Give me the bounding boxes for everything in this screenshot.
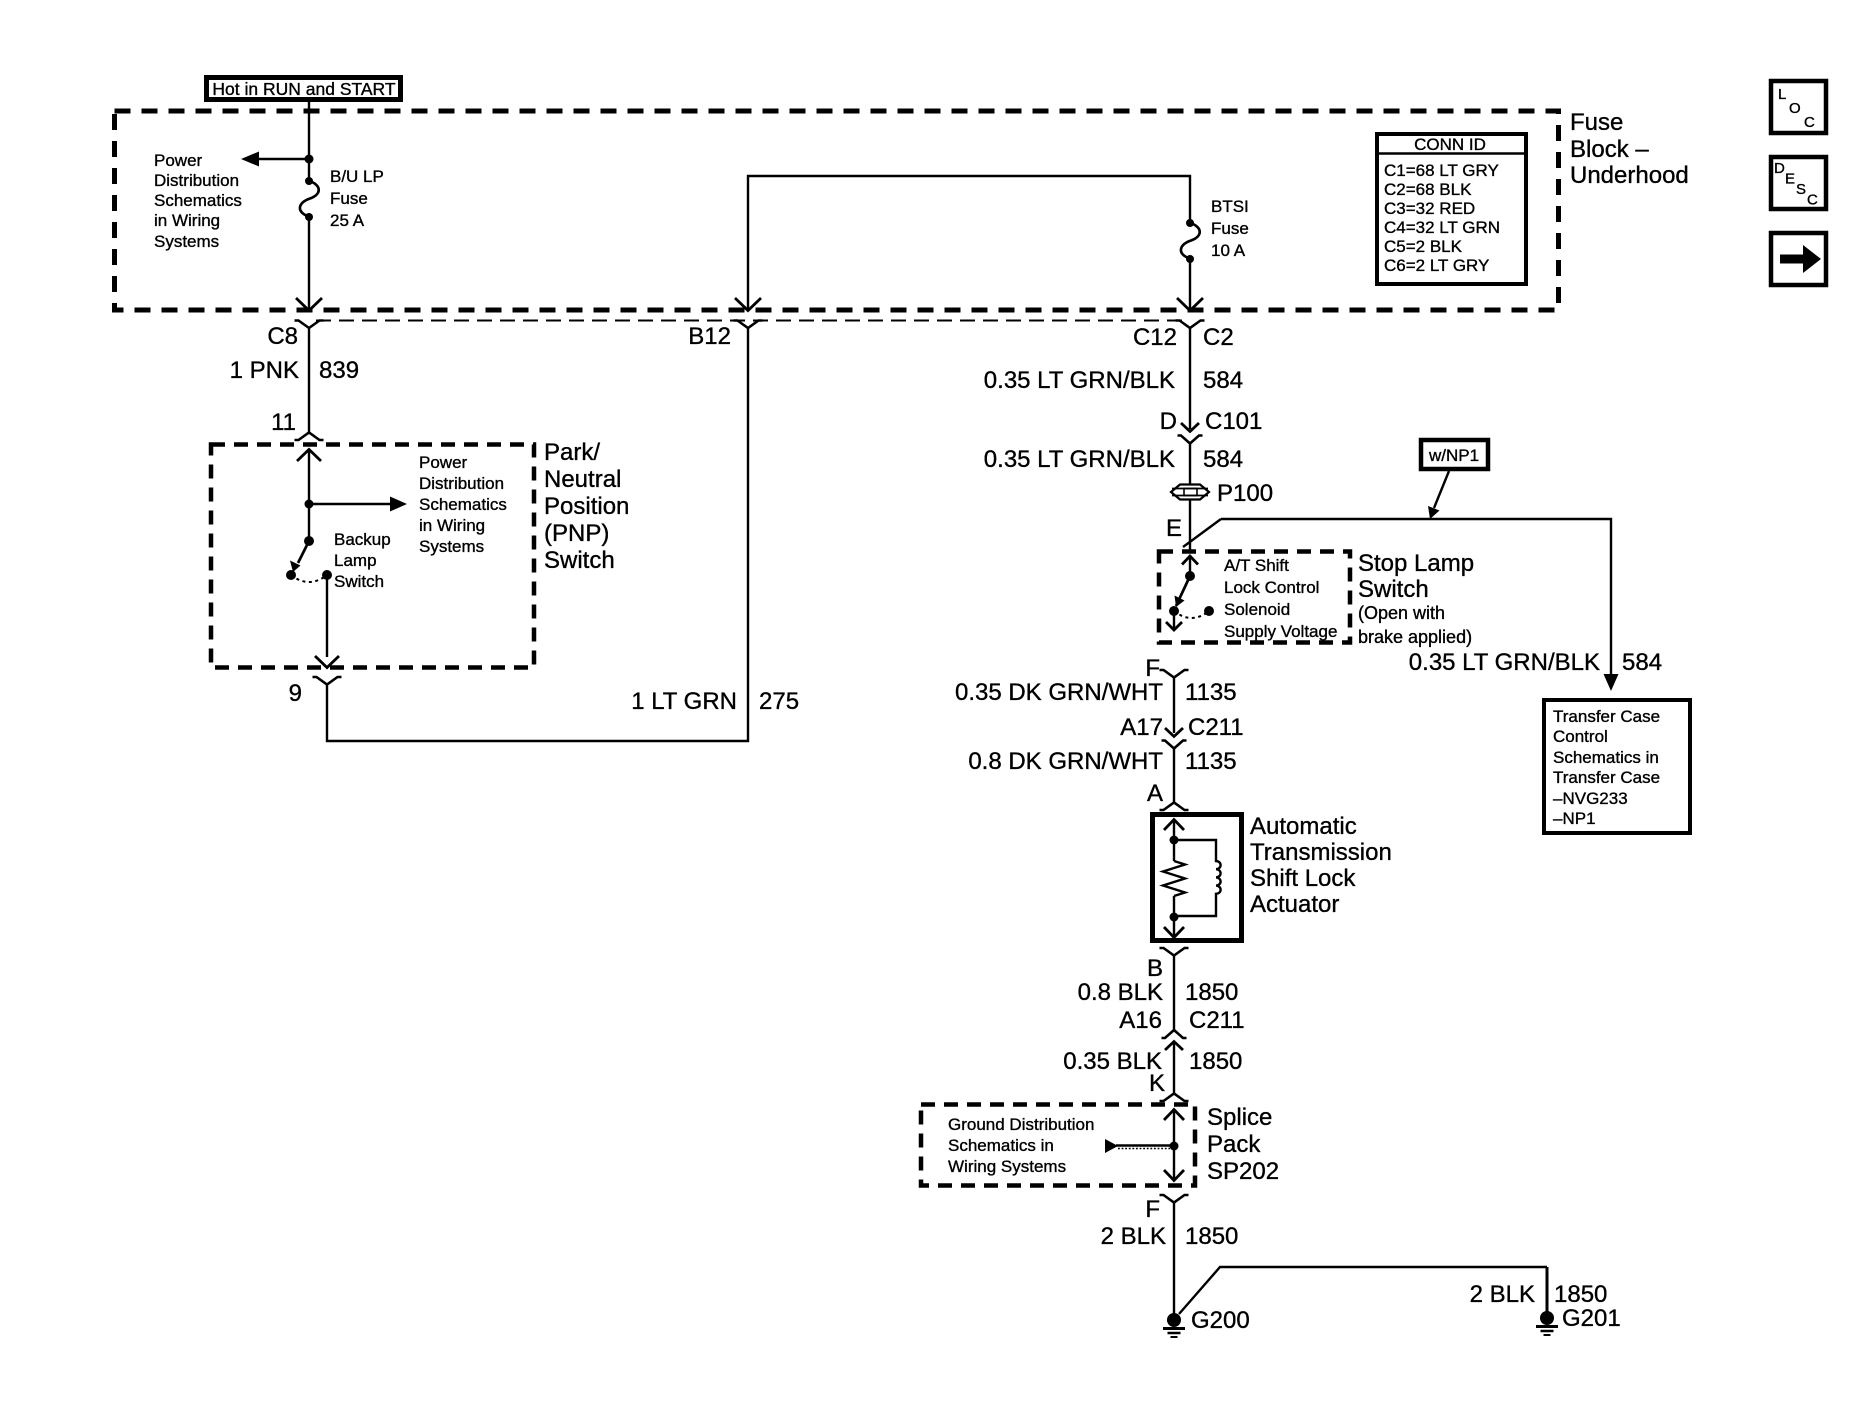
svg-text:Neutral: Neutral	[544, 466, 621, 493]
node: actuator bottom junction	[1170, 913, 1179, 922]
Park/Neutral Position switch dashed box	[211, 445, 534, 668]
wire: circuit 839 C8 to PNP pin 11	[308, 328, 310, 432]
connector C101 pin D (inline)	[1160, 408, 1263, 444]
svg-text:B12: B12	[688, 323, 731, 350]
svg-text:(Open with: (Open with	[1358, 603, 1445, 623]
wire: circuit 1850 to ground G200	[1173, 1203, 1175, 1315]
stop lamp switch dashed box (A/T shift lock solenoid supply)	[1159, 552, 1350, 643]
svg-text:–NVG233: –NVG233	[1553, 789, 1628, 808]
resistor (actuator coil suppression)	[1173, 840, 1175, 861]
svg-text:10 A: 10 A	[1211, 241, 1246, 260]
svg-text:Switch: Switch	[544, 547, 615, 574]
svg-text:C211: C211	[1188, 714, 1244, 741]
icon: next-page arrow button	[1771, 233, 1826, 285]
node: actuator title	[1250, 813, 1392, 918]
node: junction to power distribution (PNP)	[305, 500, 314, 509]
svg-text:Ground Distribution: Ground Distribution	[948, 1115, 1094, 1134]
svg-text:Power: Power	[154, 151, 203, 170]
svg-text:0.35 BLK: 0.35 BLK	[1063, 1048, 1162, 1075]
connector C8 (fuse block to harness)	[295, 321, 324, 329]
svg-text:Stop Lamp: Stop Lamp	[1358, 550, 1474, 577]
connector pin F (stop lamp switch output)	[1160, 670, 1189, 678]
svg-text:1 PNK: 1 PNK	[230, 357, 299, 384]
svg-text:2 BLK: 2 BLK	[1101, 1223, 1166, 1250]
svg-text:(PNP): (PNP)	[544, 520, 609, 547]
svg-text:11: 11	[271, 409, 296, 436]
wire: P100 down to stop lamp switch (node E)	[1189, 500, 1191, 552]
node: Splice Pack SP202 title	[1207, 1104, 1279, 1185]
svg-text:C211: C211	[1189, 1007, 1245, 1034]
wire: actuator pin B exit	[1173, 917, 1175, 937]
svg-text:D: D	[1774, 160, 1785, 177]
wire: branch to power distribution schematics	[258, 158, 309, 160]
svg-text:P100: P100	[1217, 480, 1273, 507]
svg-text:Power: Power	[419, 453, 468, 472]
wire: fuse output down to C8	[308, 217, 310, 309]
svg-text:E: E	[1785, 171, 1795, 188]
node: Transfer Case Control Schematics reference box	[1544, 700, 1690, 833]
wire: node E branch diagonal to NP1 stop lamp feed	[1183, 519, 1221, 547]
svg-text:0.8 DK GRN/WHT: 0.8 DK GRN/WHT	[968, 748, 1163, 775]
svg-text:Distribution: Distribution	[419, 474, 504, 493]
svg-text:9: 9	[289, 680, 302, 707]
svg-text:0.35 LT GRN/BLK: 0.35 LT GRN/BLK	[1409, 649, 1600, 676]
wire: circuit 275 from pin 9 up to B12	[327, 328, 748, 741]
inductor (actuator solenoid winding)	[1174, 840, 1221, 916]
svg-text:Transfer Case: Transfer Case	[1553, 707, 1660, 726]
wire: circuit 584 C12 to C101	[1189, 328, 1191, 429]
svg-text:A/T Shift: A/T Shift	[1224, 556, 1289, 575]
svg-text:Lock Control: Lock Control	[1224, 578, 1319, 597]
ground G201	[1536, 1305, 1621, 1335]
svg-text:Schematics in: Schematics in	[1553, 748, 1659, 767]
connector pin B terminal	[1160, 948, 1189, 956]
ground distribution dashed box (splice pack SP202)	[921, 1105, 1195, 1186]
svg-text:Position: Position	[544, 493, 629, 520]
wire: switch output down to pin 9	[326, 575, 328, 657]
svg-text:Pack: Pack	[1207, 1131, 1261, 1158]
svg-text:C4=32 LT GRN: C4=32 LT GRN	[1384, 218, 1500, 237]
svg-text:Hot in RUN and START: Hot in RUN and START	[212, 79, 395, 99]
svg-text:Switch: Switch	[1358, 576, 1429, 603]
svg-text:Systems: Systems	[419, 537, 484, 556]
svg-text:L: L	[1778, 86, 1786, 103]
svg-text:F: F	[1145, 1196, 1160, 1223]
node: Power Distribution Schematics note (fuse block)	[154, 151, 242, 251]
svg-text:0.35 LT GRN/BLK: 0.35 LT GRN/BLK	[984, 367, 1175, 394]
svg-text:1850: 1850	[1185, 1223, 1238, 1250]
svg-text:in Wiring: in Wiring	[419, 516, 485, 535]
connector C12 / C2	[1176, 321, 1205, 329]
ground G200	[1163, 1307, 1250, 1337]
svg-text:Lamp: Lamp	[334, 551, 377, 570]
svg-text:B/U LP: B/U LP	[330, 167, 384, 186]
svg-text:0.35 DK GRN/WHT: 0.35 DK GRN/WHT	[955, 679, 1163, 706]
svg-text:Control: Control	[1553, 727, 1608, 746]
svg-text:Block –: Block –	[1570, 136, 1649, 163]
wire: B12 up into fuse block and across to BTSI fuse	[748, 176, 1190, 309]
node: Power Distribution Schematics note (PNP)	[419, 453, 507, 556]
svg-text:C8: C8	[267, 323, 298, 350]
svg-text:SP202: SP202	[1207, 1158, 1279, 1185]
svg-text:Park/: Park/	[544, 439, 600, 466]
svg-text:brake applied): brake applied)	[1358, 627, 1472, 647]
svg-text:E: E	[1166, 515, 1182, 542]
svg-text:G200: G200	[1191, 1307, 1250, 1334]
node: A/T Shift Lock Control note	[1224, 556, 1337, 641]
svg-text:C: C	[1807, 192, 1818, 209]
switch: stop lamp contacts	[1166, 556, 1214, 630]
svg-text:S: S	[1796, 181, 1806, 198]
wire: actuator pin A entry	[1164, 820, 1184, 831]
svg-text:Fuse: Fuse	[1211, 219, 1249, 238]
fuse B/U LP 25A	[300, 167, 384, 230]
svg-text:0.35 LT GRN/BLK: 0.35 LT GRN/BLK	[984, 446, 1175, 473]
svg-text:C3=32 RED: C3=32 RED	[1384, 199, 1475, 218]
svg-text:1850: 1850	[1189, 1048, 1242, 1075]
svg-text:Fuse: Fuse	[330, 189, 368, 208]
svg-text:Transfer Case: Transfer Case	[1553, 768, 1660, 787]
svg-text:Splice: Splice	[1207, 1104, 1272, 1131]
connector pin F (splice pack output)	[1160, 1195, 1189, 1203]
wire: ground branch G200 to G201	[1179, 1267, 1547, 1314]
node: Ground Distribution Schematics note	[948, 1115, 1094, 1176]
node: junction to power distribution	[305, 155, 314, 164]
svg-text:C: C	[1804, 114, 1815, 131]
node: PNP switch title	[544, 439, 629, 574]
splice SP202	[1105, 1110, 1184, 1181]
svg-text:A: A	[1147, 780, 1163, 807]
svg-text:Automatic: Automatic	[1250, 813, 1357, 840]
wire: BTSI fuse down to C12	[1189, 259, 1191, 309]
svg-text:Underhood: Underhood	[1570, 162, 1689, 189]
icon: LOC button	[1771, 81, 1826, 133]
svg-text:CONN ID: CONN ID	[1414, 135, 1486, 154]
svg-text:F: F	[1145, 655, 1160, 682]
svg-text:1850: 1850	[1185, 979, 1238, 1006]
wire: circuit 1850 pin B to C211 A16	[1173, 956, 1175, 1031]
svg-text:1850: 1850	[1554, 1281, 1607, 1308]
svg-text:w/NP1: w/NP1	[1428, 446, 1479, 465]
svg-text:1135: 1135	[1185, 679, 1237, 706]
connector C211 pin A16 (inline)	[1119, 1007, 1244, 1050]
svg-text:A17: A17	[1120, 714, 1163, 741]
svg-text:584: 584	[1622, 649, 1662, 676]
svg-text:K: K	[1149, 1070, 1165, 1097]
wire: pin 11 entry into switch	[297, 450, 321, 462]
svg-text:in Wiring: in Wiring	[154, 211, 220, 230]
CONN ID table	[1377, 134, 1526, 284]
svg-text:C12: C12	[1133, 324, 1177, 351]
svg-text:Distribution: Distribution	[154, 171, 239, 190]
wire: circuit 1135 C211 to actuator pin A	[1173, 749, 1175, 803]
grommet P100	[1171, 480, 1273, 507]
svg-text:C5=2 BLK: C5=2 BLK	[1384, 237, 1463, 256]
wire: circuit 584 C101 to P100	[1189, 444, 1191, 486]
svg-text:C6=2 LT GRY: C6=2 LT GRY	[1384, 256, 1489, 275]
svg-text:C2: C2	[1203, 324, 1234, 351]
svg-text:O: O	[1789, 100, 1801, 117]
node: Fuse Block - Underhood title	[1570, 109, 1689, 189]
wire: battery feed from Hot label into fuse block	[308, 101, 310, 178]
svg-text:Backup: Backup	[334, 530, 391, 549]
svg-text:C101: C101	[1205, 408, 1262, 435]
icon: DESC button	[1771, 157, 1826, 209]
svg-text:A16: A16	[1119, 1007, 1162, 1034]
svg-text:Transmission: Transmission	[1250, 839, 1392, 866]
svg-text:Shift Lock: Shift Lock	[1250, 865, 1356, 892]
svg-text:Schematics: Schematics	[154, 191, 242, 210]
svg-text:Systems: Systems	[154, 232, 219, 251]
node: actuator top junction	[1170, 836, 1179, 845]
svg-text:C1=68 LT GRY: C1=68 LT GRY	[1384, 161, 1499, 180]
wire: branch arrow to power distribution schematics	[309, 503, 392, 505]
svg-text:BTSI: BTSI	[1211, 197, 1249, 216]
svg-text:G201: G201	[1562, 1305, 1621, 1332]
connector face dashed line (C8..C2 row)	[316, 320, 1186, 322]
connector pin 11 terminal	[295, 433, 324, 441]
svg-text:Solenoid: Solenoid	[1224, 600, 1290, 619]
switch: backup lamp switch	[286, 530, 391, 591]
wire: circuit 1135 pin F to C211 A17	[1173, 678, 1175, 734]
connector C211 pin A17 (inline)	[1120, 714, 1243, 749]
node: Hot in RUN and START label box	[207, 78, 401, 100]
svg-text:Actuator: Actuator	[1250, 891, 1339, 918]
svg-text:B: B	[1147, 955, 1163, 982]
wire: circuit 1850 C211 to splice pack pin K	[1173, 1041, 1175, 1093]
svg-text:D: D	[1160, 408, 1177, 435]
connector B12	[734, 321, 763, 329]
svg-text:–NP1: –NP1	[1553, 809, 1596, 828]
svg-text:1135: 1135	[1185, 748, 1237, 775]
svg-text:584: 584	[1203, 367, 1243, 394]
svg-text:0.8 BLK: 0.8 BLK	[1078, 979, 1163, 1006]
svg-text:Schematics in: Schematics in	[948, 1136, 1054, 1155]
svg-text:Switch: Switch	[334, 572, 384, 591]
fuse BTSI 10A	[1181, 197, 1249, 263]
svg-text:1 LT GRN: 1 LT GRN	[631, 688, 737, 715]
node: Stop Lamp Switch title	[1358, 550, 1474, 647]
svg-text:839: 839	[319, 357, 359, 384]
svg-text:2 BLK: 2 BLK	[1470, 1281, 1535, 1308]
actuator: Automatic Transmission Shift Lock Actuator box	[1153, 815, 1242, 941]
svg-text:Fuse: Fuse	[1570, 109, 1623, 136]
svg-text:275: 275	[759, 688, 799, 715]
fuse block - underhood dashed box	[115, 111, 1559, 310]
svg-text:584: 584	[1203, 446, 1243, 473]
svg-text:25 A: 25 A	[330, 211, 365, 230]
node: w/NP1 flag box	[1421, 440, 1488, 519]
connector pin 9 terminal	[313, 677, 342, 685]
svg-text:Wiring Systems: Wiring Systems	[948, 1157, 1066, 1176]
svg-text:Supply Voltage: Supply Voltage	[1224, 622, 1337, 641]
svg-text:Schematics: Schematics	[419, 495, 507, 514]
svg-text:C2=68 BLK: C2=68 BLK	[1384, 180, 1472, 199]
